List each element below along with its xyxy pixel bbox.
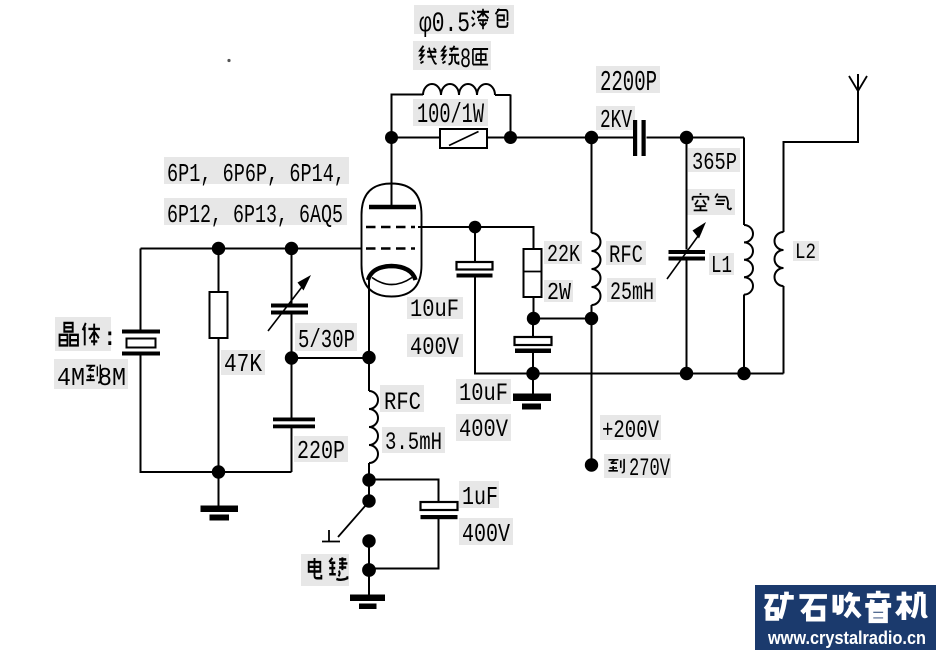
svg-text:6P12, 6P13, 6AQ5: 6P12, 6P13, 6AQ5 [167, 200, 343, 230]
wire 22K bottom to node L, node L to node M [534, 297, 592, 319]
wire cathode lead down to node [368, 279, 370, 391]
node left bottom [212, 465, 225, 478]
antenna fork [849, 76, 867, 91]
node plate/top [385, 131, 398, 144]
svg-text:4M: 4M [57, 363, 85, 393]
inductor RFC 3.5mH [369, 391, 378, 463]
resistor 100/1W (box with slash) [440, 129, 487, 148]
svg-text:10uF: 10uF [410, 295, 459, 324]
wire trimmer node to cathode node [292, 357, 370, 359]
svg-text:220P: 220P [297, 436, 345, 466]
capacitor 2200P 2KV [633, 120, 646, 156]
node key chain [362, 473, 375, 486]
wire key node to 1uF cap loop [369, 480, 439, 569]
label: phi 0.5 enamel wire, 8 turns [419, 9, 508, 76]
tube control grid (dashed) [366, 247, 415, 250]
wire plate lead down into tube [391, 138, 393, 206]
svg-text:RFC: RFC [609, 241, 643, 270]
svg-text:400V: 400V [462, 519, 510, 549]
crystal Y1 (4M-8M) [122, 330, 160, 356]
node bottom rail [526, 367, 539, 380]
svg-text:www.crystalradio.cn: www.crystalradio.cn [767, 628, 926, 648]
node screen bypass [469, 221, 482, 234]
svg-text:3.5mH: 3.5mH [385, 428, 442, 457]
watermark: crystalradio.cn [755, 585, 936, 650]
capacitor 220P [273, 418, 315, 429]
svg-text:2KV: 2KV [600, 105, 632, 135]
wire 5/30P branch [291, 249, 293, 359]
wire grid bypass: junction to 10uF cap1 [475, 227, 533, 374]
svg-text:+200V: +200V [602, 416, 659, 445]
inductor RFC 25mH [592, 233, 601, 305]
wire ground stub (left) [218, 472, 220, 506]
wire node L down through 10uF cap2 to rail [532, 319, 534, 374]
svg-text:6P1, 6P6P, 6P14,: 6P1, 6P6P, 6P14, [167, 159, 345, 189]
svg-text:1uF: 1uF [462, 482, 498, 512]
wire bottom rail [533, 373, 784, 375]
svg-text:RFC: RFC [384, 388, 421, 417]
inductor L2 [775, 232, 784, 286]
wire lower contact to ground node [368, 541, 370, 595]
vacuum tube V1 envelope [362, 184, 422, 297]
switch arm (telegraph key) [338, 505, 366, 537]
svg-text:L2: L2 [795, 240, 816, 265]
ground (key) [350, 595, 385, 610]
ground (left oscillator) [201, 506, 239, 521]
svg-text:φ0.5: φ0.5 [419, 9, 470, 40]
wire ground stub under cap2 [532, 374, 534, 394]
svg-text:2W: 2W [547, 280, 571, 307]
svg-text:22K: 22K [547, 242, 580, 269]
svg-text:400V: 400V [410, 333, 459, 362]
wire top rail (plate node to resistor, resistor to 2200P, to L1 branch) [392, 137, 745, 139]
svg-text:100/1W: 100/1W [417, 100, 484, 131]
resistor 22K 2W [524, 249, 542, 297]
wire screen-grid to 22K top [418, 227, 534, 249]
svg-text:2200P: 2200P [600, 66, 657, 99]
svg-text:400V: 400V [459, 415, 508, 444]
wire coil to key node [368, 463, 370, 501]
wire control-grid rail left [141, 248, 363, 250]
node cathode row [285, 351, 298, 364]
svg-text:47K: 47K [224, 349, 262, 379]
inductor 100/1W parallel choke (8 turns) [423, 84, 495, 95]
svg-text:25mH: 25mH [610, 278, 654, 307]
wire 220P branch [291, 358, 293, 472]
label: crystal 4M-8M [60, 323, 100, 345]
wire 47K branch [218, 249, 220, 473]
variable capacitor 365P (air) [667, 222, 706, 279]
trimmer capacitor 5/30P [268, 275, 311, 331]
wire coil right riser [495, 95, 511, 139]
stray speck [227, 59, 230, 62]
capacitor 1uF 400V (key bypass) [421, 502, 458, 519]
node B+ terminal [585, 458, 598, 471]
gray label background fields [54, 5, 819, 586]
node grid rail [212, 242, 225, 255]
svg-text::: : [102, 323, 118, 353]
wire L1 branch riser [743, 138, 745, 374]
wire plate-node to coil left riser [392, 95, 424, 139]
tube plate [369, 205, 416, 210]
node 22K bottom [527, 312, 540, 325]
tube screen grid (dashed) [366, 226, 415, 229]
wire B+ feed riser x=591.5 [591, 138, 593, 466]
inductor L1 [744, 225, 753, 295]
label: telegraph key [309, 557, 348, 579]
svg-text:L1: L1 [711, 253, 732, 280]
svg-text:5/30P: 5/30P [298, 325, 355, 355]
ground (B+ filter) [513, 394, 551, 410]
svg-text:8: 8 [460, 45, 471, 76]
svg-text:10uF: 10uF [459, 379, 508, 408]
svg-text:8M: 8M [98, 363, 126, 393]
wire 365P branch [686, 138, 688, 374]
tube cathode [368, 266, 416, 280]
wire L2 riser and antenna feed [784, 74, 859, 374]
switch rest contact [322, 530, 340, 542]
capacitor 10uF 400V (screen bypass) [457, 262, 493, 278]
svg-text:270V: 270V [629, 454, 670, 483]
svg-text:365P: 365P [692, 150, 737, 177]
capacitor 10uF 400V (B+ filter) [515, 337, 552, 353]
wire left loop: down through crystal, bottom return [141, 249, 292, 473]
resistor 47K [210, 292, 228, 338]
